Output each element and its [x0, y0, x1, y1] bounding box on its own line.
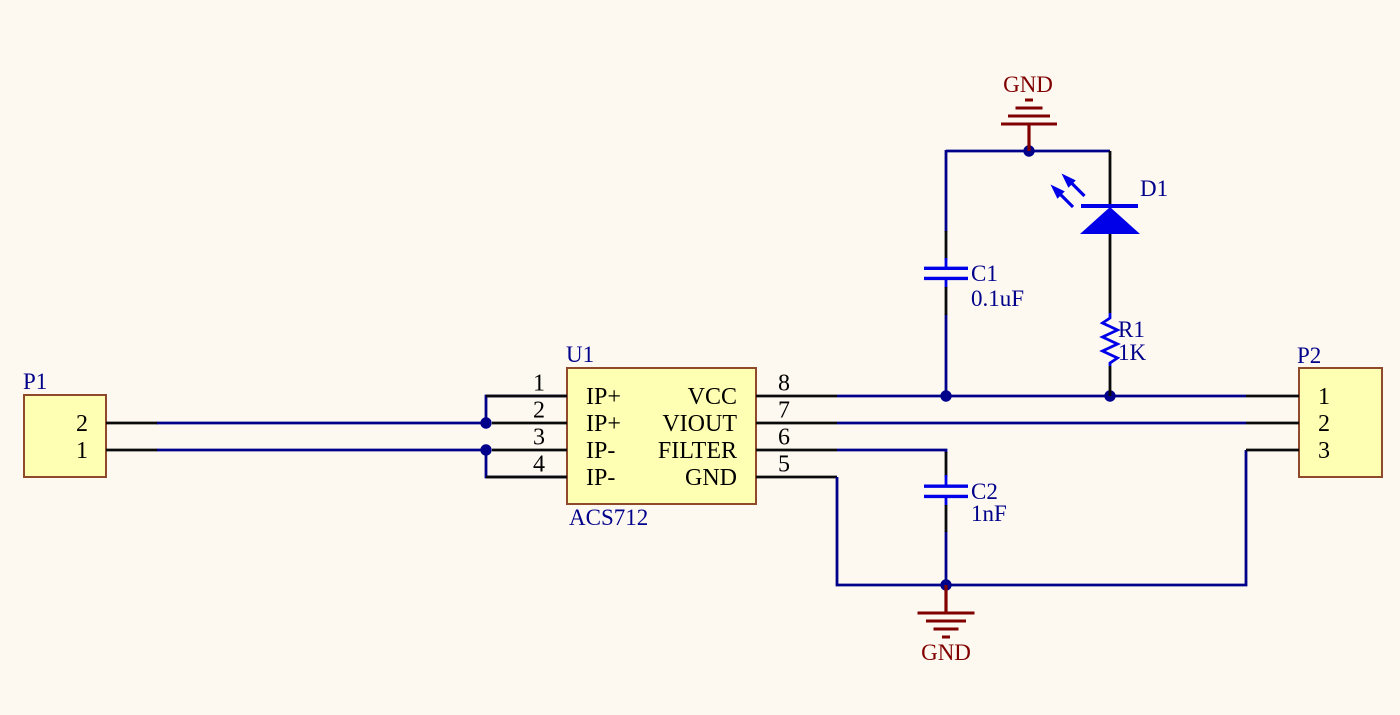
- junction C1/VCC: [940, 390, 951, 401]
- svg-text:2: 2: [533, 398, 545, 424]
- U1 pin 6: [756, 449, 837, 452]
- U1 pin 5: [756, 476, 837, 479]
- P1 pin 2 stub: [106, 422, 158, 425]
- svg-text:IP+: IP+: [586, 384, 621, 410]
- wire P1.2 to node A: [157, 422, 486, 425]
- svg-text:GND: GND: [1003, 72, 1053, 97]
- svg-text:2: 2: [76, 411, 88, 437]
- U1 pin 1: [486, 395, 567, 398]
- svg-text:1: 1: [1318, 384, 1330, 410]
- junction C2/GND rail: [940, 579, 951, 590]
- svg-text:ACS712: ACS712: [569, 505, 648, 530]
- junction node B: [480, 444, 491, 455]
- svg-text:4: 4: [533, 452, 545, 478]
- wire VIOUT net: U1 pin 7 to P2 pin 2: [837, 422, 1246, 425]
- capacitor C1: [924, 231, 968, 315]
- P2 pin 1 stub: [1246, 395, 1299, 398]
- svg-text:3: 3: [1318, 438, 1330, 464]
- U1 pin 7: [756, 422, 837, 425]
- connector P1: [24, 395, 106, 477]
- IC U1 body: [567, 368, 756, 504]
- wire P1.1 to node B: [157, 449, 486, 452]
- svg-text:VIOUT: VIOUT: [662, 411, 737, 437]
- junction top GND rail: [1023, 145, 1034, 156]
- wire GND net: U1 pin 5 down and along bottom to P2 pin 3: [837, 450, 1246, 585]
- wire node A to U1 pin 1: [486, 396, 567, 423]
- wire C1 bottom to VCC rail: [945, 314, 948, 396]
- svg-text:8: 8: [778, 371, 790, 397]
- svg-text:1: 1: [533, 371, 545, 397]
- svg-text:P1: P1: [23, 369, 47, 394]
- svg-text:C1: C1: [971, 261, 998, 286]
- svg-text:R1: R1: [1118, 317, 1145, 342]
- svg-text:IP+: IP+: [586, 411, 621, 437]
- svg-text:3: 3: [533, 425, 545, 451]
- wire C2 bottom to GND rail: [945, 531, 948, 585]
- svg-text:6: 6: [778, 425, 790, 451]
- ground symbol bottom GND: [918, 585, 975, 637]
- svg-text:D1: D1: [1140, 176, 1168, 201]
- ground symbol top GND: [1001, 100, 1057, 151]
- svg-text:IP-: IP-: [586, 465, 615, 491]
- svg-text:VCC: VCC: [688, 384, 737, 410]
- junction node A: [480, 417, 491, 428]
- U1 pin 4: [486, 476, 567, 479]
- svg-text:1: 1: [76, 438, 88, 464]
- svg-text:5: 5: [778, 452, 790, 478]
- svg-text:7: 7: [778, 398, 790, 424]
- wire top rail GND net: [946, 150, 1110, 153]
- P1 pin 1 stub: [106, 449, 158, 452]
- U1 pin 3: [492, 449, 567, 452]
- svg-text:1K: 1K: [1118, 340, 1147, 365]
- P2 pin 3 stub: [1246, 449, 1299, 452]
- connector P2: [1299, 368, 1382, 477]
- svg-text:0.1uF: 0.1uF: [971, 286, 1024, 311]
- svg-text:2: 2: [1318, 411, 1330, 437]
- svg-text:1nF: 1nF: [971, 501, 1007, 526]
- svg-text:IP-: IP-: [586, 438, 615, 464]
- U1 pin 2: [492, 422, 567, 425]
- svg-text:GND: GND: [921, 640, 971, 665]
- P2 pin 2 stub: [1246, 422, 1299, 425]
- svg-text:FILTER: FILTER: [658, 438, 737, 464]
- D1 emission arrow 1: [1062, 174, 1085, 197]
- wire top rail down to C1: [945, 150, 948, 232]
- svg-text:P2: P2: [1297, 343, 1321, 368]
- wire FILTER net: U1 pin 6 to C2: [837, 450, 946, 453]
- LED D1: [1080, 151, 1140, 313]
- D1 emission arrow 2: [1051, 185, 1074, 208]
- capacitor C2: [924, 452, 968, 532]
- U1 pin 8: [756, 395, 837, 398]
- resistor R1: [1103, 313, 1118, 396]
- wire VCC net: U1 pin 8 to P2 pin 1: [837, 395, 1246, 398]
- svg-text:U1: U1: [566, 342, 594, 367]
- junction R1/VCC: [1104, 390, 1115, 401]
- wire node B to U1 pin 4: [486, 450, 567, 477]
- svg-text:GND: GND: [685, 465, 737, 491]
